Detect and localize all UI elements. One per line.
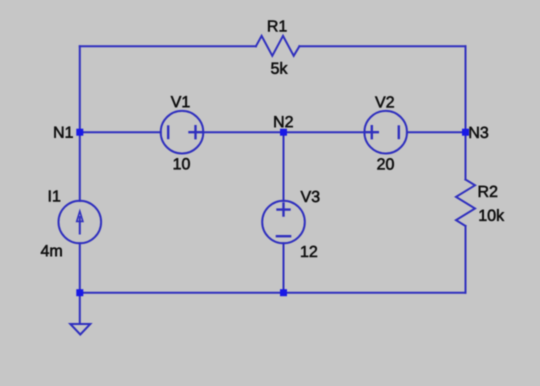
wire: top rail right segment [299, 45, 465, 47]
label 12 [301, 246, 317, 257]
label V1 [171, 96, 190, 107]
label N3 [470, 127, 489, 138]
label 10k [480, 209, 505, 221]
wire: right vertical, top corner to N3 [465, 46, 467, 132]
label R2 [479, 186, 497, 197]
I1 arrow shaft [79, 217, 81, 234]
wire: N2 to V2 [284, 131, 365, 133]
label R1 [268, 21, 286, 32]
voltage source V1 [161, 111, 204, 154]
label 4m [41, 245, 62, 256]
wire: V1 to N2 [203, 131, 283, 133]
label N2 [274, 116, 292, 127]
wire: left vertical, top corner to node N1 [79, 46, 81, 132]
node N1 junction square [76, 129, 83, 136]
wire: N1 down to I1 [79, 132, 81, 201]
wire: bottom ground rail [80, 292, 466, 294]
node N2 junction square [280, 129, 287, 136]
resistor R2 [456, 180, 475, 227]
wire: junction down to ground [79, 293, 81, 324]
junction square bottom-middle [280, 289, 287, 296]
junction square bottom-left [76, 289, 83, 296]
wire: top rail left segment [80, 45, 256, 47]
label V3 [301, 191, 320, 202]
wire: N2 down to V3 [283, 132, 285, 201]
label I1 [49, 191, 60, 202]
V2 minus terminal bar [398, 127, 400, 139]
I1 arrowhead [77, 211, 83, 221]
V3 plus sign [278, 204, 290, 216]
wire: V3 to bottom-middle junction [283, 243, 285, 293]
voltage source V3 [262, 201, 305, 244]
wire: N3 down to R2 [465, 132, 467, 179]
V2 plus sign [366, 126, 378, 138]
label 5k [271, 62, 287, 74]
label 20 [377, 158, 393, 169]
V3 minus sign [277, 235, 290, 237]
current source I1 [59, 201, 102, 244]
ground symbol [70, 324, 90, 335]
node N3 junction square [462, 129, 469, 136]
resistor R1 [256, 36, 300, 56]
wire: V2 to N3 [407, 131, 466, 133]
label N1 [54, 127, 72, 138]
V1 minus terminal bar [167, 127, 169, 139]
wire: I1 to bottom-left junction [79, 243, 81, 293]
wire: N1 to V1 [80, 131, 161, 133]
label V2 [375, 96, 394, 107]
wire: R2 to bottom rail [465, 226, 467, 293]
voltage source V2 [364, 111, 407, 154]
label 10 [174, 158, 190, 169]
V1 plus sign [190, 126, 202, 138]
